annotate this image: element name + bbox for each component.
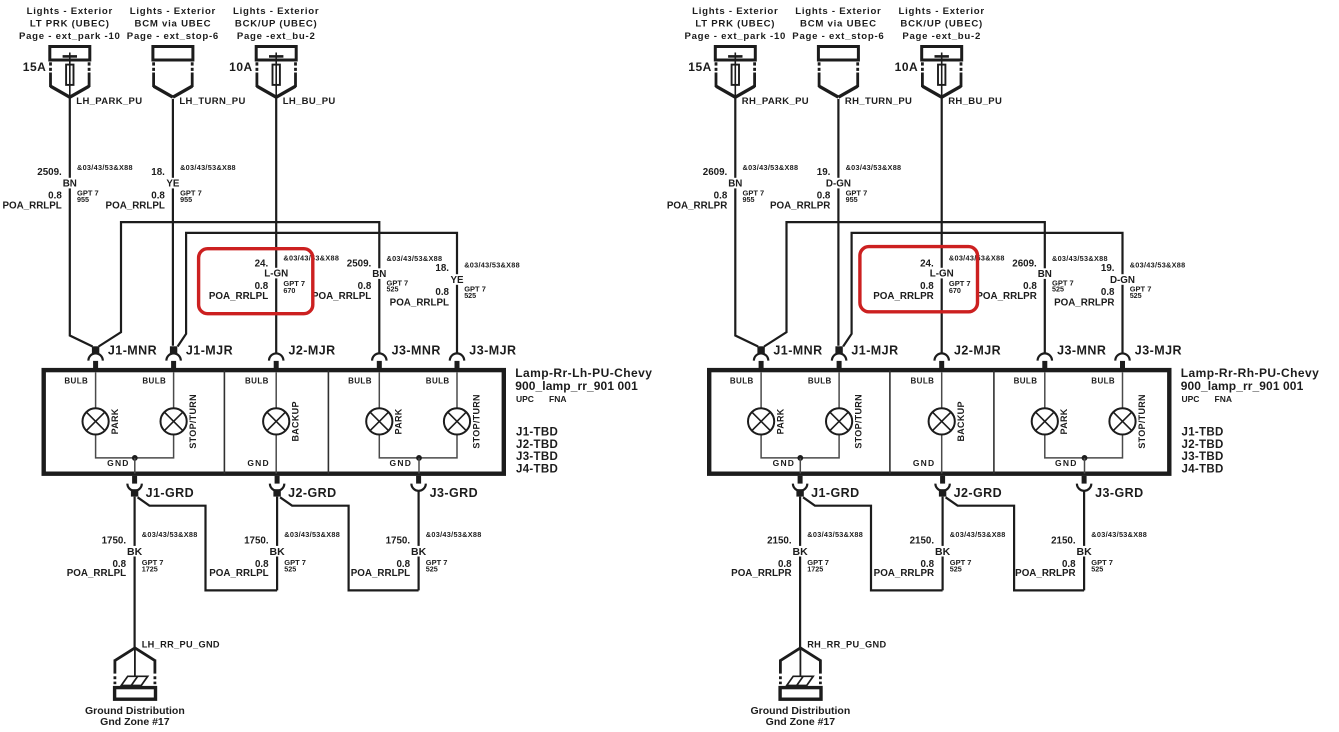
svg-text:FNA: FNA — [549, 394, 566, 404]
ground symbol LH_RR_PU_GND Gnd Zone #17 — [85, 640, 220, 729]
connector pin J2-MJR — [935, 344, 1002, 369]
ground wire label 2150. BK 1725 — [731, 530, 863, 579]
ground wire label 1750. BK 525 (J2) — [209, 530, 340, 579]
svg-text:POA_RRLPL: POA_RRLPL — [106, 201, 165, 212]
wire branch J1-MJR to J3-MJR — [178, 233, 457, 353]
bulb PARK (J1) — [748, 408, 785, 434]
svg-text:BCK/UP (UBEC): BCK/UP (UBEC) — [235, 19, 318, 30]
svg-text:Lamp-Rr-Lh-PU-Chevy: Lamp-Rr-Lh-PU-Chevy — [515, 366, 652, 380]
svg-text:POA_RRLPL: POA_RRLPL — [2, 201, 61, 212]
svg-text:POA_RRLPL: POA_RRLPL — [312, 291, 371, 302]
svg-text:BK: BK — [1077, 546, 1093, 558]
svg-text:&03/43/53&X88: &03/43/53&X88 — [1091, 530, 1147, 539]
wire label 24 L-GN 0.8 POA_RRLPR (highlighted) — [873, 253, 1004, 302]
svg-text:BK: BK — [127, 546, 143, 558]
wire label 19. D-GN 0.8 POA_RRLPR (to J3-MJR) — [1054, 260, 1185, 308]
svg-text:1725: 1725 — [142, 564, 158, 573]
bulb STOP/TURN (J1) — [161, 394, 198, 449]
wire 24 L-GN from LH_BU_PU to J2-MJR — [275, 97, 277, 353]
svg-text:19.: 19. — [1101, 263, 1115, 274]
svg-text:BK: BK — [411, 546, 427, 558]
svg-text:18.: 18. — [435, 263, 449, 274]
svg-text:J3-MNR: J3-MNR — [392, 344, 441, 358]
svg-text:955: 955 — [180, 195, 192, 204]
svg-text:POA_RRLPL: POA_RRLPL — [390, 297, 449, 308]
svg-text:POA_RRLPR: POA_RRLPR — [1015, 568, 1075, 579]
svg-text:PARK: PARK — [110, 408, 120, 434]
svg-text:L-GN: L-GN — [264, 268, 288, 279]
svg-text:Page - ext_stop-6: Page - ext_stop-6 — [792, 31, 884, 42]
wire branch J1-MJR to J3-MJR — [843, 233, 1122, 353]
svg-text:BULB: BULB — [142, 377, 166, 386]
connector pin J3-MJR — [1115, 344, 1182, 369]
wire label 2509. BN 0.8 POA_RRLPL (to J3-MNR) — [312, 254, 442, 302]
svg-text:UPC: UPC — [1182, 394, 1200, 404]
svg-text:J1-MNR: J1-MNR — [108, 344, 157, 358]
svg-text:Ground Distribution: Ground Distribution — [751, 705, 851, 717]
lamp box annotation Lamp-Rr-Rh-PU-Chevy — [1181, 366, 1320, 476]
off-page connector RH_PARK_PU — [684, 6, 809, 107]
svg-text:525: 525 — [426, 564, 438, 573]
bulb PARK (J3) — [1032, 408, 1069, 434]
svg-text:GND: GND — [913, 458, 936, 468]
svg-text:Lights - Exterior: Lights - Exterior — [130, 6, 216, 17]
ground wire J3-GRD drop — [1083, 491, 1085, 591]
svg-text:BCK/UP (UBEC): BCK/UP (UBEC) — [900, 19, 983, 30]
svg-text:BULB: BULB — [245, 377, 269, 386]
svg-text:2609.: 2609. — [1012, 258, 1037, 269]
svg-text:GND: GND — [107, 458, 130, 468]
svg-text:J3-MJR: J3-MJR — [1135, 344, 1182, 358]
lamp box annotation Lamp-Rr-Lh-PU-Chevy — [515, 366, 652, 476]
svg-text:J1-TBD: J1-TBD — [516, 427, 558, 439]
bulb PARK (J1) — [83, 408, 120, 434]
svg-text:GND: GND — [247, 458, 270, 468]
svg-text:J3-MNR: J3-MNR — [1057, 344, 1106, 358]
svg-text:&03/43/53&X88: &03/43/53&X88 — [426, 530, 482, 539]
svg-text:J2-GRD: J2-GRD — [288, 486, 337, 500]
ground wire 2150. BK J1-GRD to ground — [799, 497, 801, 648]
svg-text:955: 955 — [77, 195, 89, 204]
ground wire J3-GRD drop — [418, 491, 420, 591]
connector pin J2-GRD — [935, 476, 1002, 500]
svg-text:GND: GND — [773, 458, 796, 468]
ground wire label 2150. BK 525 (J3) — [1015, 530, 1147, 579]
svg-text:Page - ext_stop-6: Page - ext_stop-6 — [127, 31, 219, 42]
connector pin J1-MJR — [166, 344, 233, 369]
svg-text:Lights - Exterior: Lights - Exterior — [795, 6, 881, 17]
svg-text:STOP/TURN: STOP/TURN — [471, 394, 481, 449]
svg-text:BN: BN — [1038, 269, 1052, 280]
svg-text:&03/43/53&X88: &03/43/53&X88 — [77, 163, 133, 172]
svg-text:1750.: 1750. — [244, 536, 269, 547]
svg-text:J2-TBD: J2-TBD — [516, 439, 558, 451]
svg-text:LT PRK (UBEC): LT PRK (UBEC) — [30, 19, 110, 30]
svg-text:BULB: BULB — [808, 377, 832, 386]
red highlight box around 24 L-GN label — [199, 249, 313, 314]
ground wire label 1750. BK 1725 — [67, 530, 198, 579]
svg-text:FNA: FNA — [1215, 394, 1232, 404]
svg-text:BULB: BULB — [64, 377, 88, 386]
bulb STOP/TURN (J3) — [444, 394, 481, 449]
svg-text:BACKUP: BACKUP — [956, 401, 966, 441]
svg-text:STOP/TURN: STOP/TURN — [188, 394, 198, 449]
svg-text:YE: YE — [166, 178, 180, 189]
svg-text:&03/43/53&X88: &03/43/53&X88 — [180, 163, 236, 172]
svg-text:525: 525 — [464, 291, 476, 300]
svg-text:POA_RRLPR: POA_RRLPR — [731, 568, 791, 579]
svg-text:10A: 10A — [229, 60, 253, 74]
svg-text:UPC: UPC — [516, 394, 534, 404]
svg-text:J3-TBD: J3-TBD — [1182, 451, 1224, 463]
svg-text:1750.: 1750. — [386, 536, 411, 547]
svg-text:Lights - Exterior: Lights - Exterior — [692, 6, 778, 17]
bulb STOP/TURN (J3) — [1109, 394, 1146, 449]
svg-text:525: 525 — [950, 564, 962, 573]
svg-text:BK: BK — [793, 546, 809, 558]
svg-text:Lights - Exterior: Lights - Exterior — [27, 6, 113, 17]
svg-text:10A: 10A — [895, 60, 919, 74]
svg-text:LH_BU_PU: LH_BU_PU — [283, 96, 336, 107]
off-page connector LH_PARK_PU — [19, 6, 143, 107]
svg-text:&03/43/53&X88: &03/43/53&X88 — [950, 530, 1006, 539]
bulb STOP/TURN (J1) — [826, 394, 863, 449]
svg-text:Page - ext_park -10: Page - ext_park -10 — [684, 31, 786, 42]
svg-text:&03/43/53&X88: &03/43/53&X88 — [743, 163, 799, 172]
svg-text:STOP/TURN: STOP/TURN — [853, 394, 863, 449]
svg-text:BN: BN — [728, 178, 742, 189]
svg-text:POA_RRLPR: POA_RRLPR — [770, 201, 830, 212]
ground symbol RH_RR_PU_GND Gnd Zone #17 — [751, 640, 887, 729]
wire 2609. BN from RH_PARK_PU to J1-MNR — [735, 97, 758, 347]
svg-text:LH_RR_PU_GND: LH_RR_PU_GND — [142, 640, 220, 650]
svg-text:955: 955 — [743, 195, 755, 204]
connector pin J1-GRD — [793, 476, 860, 500]
svg-text:RH_BU_PU: RH_BU_PU — [948, 96, 1002, 107]
svg-text:POA_RRLPR: POA_RRLPR — [667, 201, 727, 212]
svg-text:BCM via UBEC: BCM via UBEC — [135, 19, 212, 30]
svg-text:J2-GRD: J2-GRD — [954, 486, 1003, 500]
svg-text:YE: YE — [450, 275, 464, 286]
connector pin J3-MJR — [450, 344, 517, 369]
svg-text:525: 525 — [1052, 285, 1064, 294]
svg-text:1725: 1725 — [807, 564, 823, 573]
bulb BACKUP (J2) — [263, 401, 300, 441]
connector pin J1-MJR — [832, 344, 899, 369]
svg-text:525: 525 — [284, 564, 296, 573]
svg-text:Gnd Zone #17: Gnd Zone #17 — [766, 716, 836, 728]
svg-text:955: 955 — [846, 195, 858, 204]
connector pin J1-MNR — [88, 344, 157, 369]
connector pin J3-MNR — [1038, 344, 1107, 369]
svg-text:&03/43/53&X88: &03/43/53&X88 — [846, 163, 902, 172]
svg-text:670: 670 — [949, 286, 961, 295]
wire branch J1-MNR to J3-MNR — [99, 222, 380, 353]
svg-text:900_lamp_rr_901 001: 900_lamp_rr_901 001 — [515, 379, 638, 393]
bulb PARK (J3) — [366, 408, 403, 434]
svg-text:POA_RRLPR: POA_RRLPR — [976, 291, 1036, 302]
svg-text:2609.: 2609. — [703, 167, 728, 178]
svg-text:2509.: 2509. — [347, 258, 372, 269]
svg-text:Page -ext_bu-2: Page -ext_bu-2 — [237, 31, 316, 42]
svg-text:J1-MJR: J1-MJR — [186, 344, 233, 358]
lamp internal wiring and bulbs — [64, 372, 457, 473]
ground wire J1-GRD to J2-GRD — [803, 497, 943, 590]
svg-text:&03/43/53&X88: &03/43/53&X88 — [387, 254, 443, 263]
lamp assembly Lamp-Rr-Rh-PU-Chevy — [709, 370, 1169, 474]
svg-text:POA_RRLPR: POA_RRLPR — [874, 568, 934, 579]
svg-text:LT PRK (UBEC): LT PRK (UBEC) — [695, 19, 775, 30]
off-page connector LH_TURN_PU — [127, 6, 246, 107]
svg-text:POA_RRLPR: POA_RRLPR — [873, 291, 933, 302]
svg-text:Gnd Zone #17: Gnd Zone #17 — [100, 716, 170, 728]
svg-text:&03/43/53&X88: &03/43/53&X88 — [1052, 254, 1108, 263]
svg-text:BULB: BULB — [730, 377, 754, 386]
svg-text:&03/43/53&X88: &03/43/53&X88 — [464, 260, 520, 269]
connector pin J1-MNR — [754, 344, 823, 369]
svg-text:BACKUP: BACKUP — [291, 401, 301, 441]
svg-text:J3-MJR: J3-MJR — [469, 344, 516, 358]
svg-text:900_lamp_rr_901 001: 900_lamp_rr_901 001 — [1181, 379, 1304, 393]
svg-text:J4-TBD: J4-TBD — [516, 464, 558, 476]
svg-text:1750.: 1750. — [102, 536, 127, 547]
svg-text:Lamp-Rr-Rh-PU-Chevy: Lamp-Rr-Rh-PU-Chevy — [1181, 366, 1320, 380]
ground wire label 2150. BK 525 (J2) — [874, 530, 1006, 579]
svg-text:POA_RRLPL: POA_RRLPL — [209, 568, 268, 579]
svg-text:BK: BK — [935, 546, 951, 558]
svg-text:J1-GRD: J1-GRD — [811, 486, 860, 500]
wire label 18. YE 0.8 POA_RRLPL (to J3-MJR) — [390, 260, 520, 308]
wire label 2609. BN 0.8 POA_RRLPR (to J3-MNR) — [976, 254, 1107, 302]
connector pin J1-GRD — [127, 476, 194, 500]
connector pin J3-GRD — [411, 476, 478, 500]
svg-text:PARK: PARK — [394, 408, 404, 434]
wire label 2609. BN 0.8 POA_RRLPR — [667, 163, 798, 212]
svg-text:Page - ext_park -10: Page - ext_park -10 — [19, 31, 121, 42]
wire label 19. D-GN 0.8 POA_RRLPR — [770, 163, 901, 212]
svg-text:2150.: 2150. — [910, 536, 935, 547]
svg-text:GND: GND — [1055, 458, 1078, 468]
svg-text:BK: BK — [270, 546, 286, 558]
wire branch J1-MNR to J3-MNR — [764, 222, 1045, 353]
connector pin J2-MJR — [269, 344, 336, 369]
svg-text:&03/43/53&X88: &03/43/53&X88 — [807, 530, 863, 539]
svg-text:J1-MNR: J1-MNR — [773, 344, 822, 358]
off-page connector RH_TURN_PU — [792, 6, 912, 107]
ground wire J1-GRD to J2-GRD — [138, 497, 278, 590]
wire label 24 L-GN 0.8 POA_RRLPL (highlighted) — [209, 253, 339, 302]
svg-text:J3-TBD: J3-TBD — [516, 451, 558, 463]
svg-text:STOP/TURN: STOP/TURN — [1137, 394, 1147, 449]
svg-text:J2-TBD: J2-TBD — [1182, 439, 1224, 451]
ground wire J2-GRD to J3-GRD — [280, 497, 419, 590]
connector pin J3-GRD — [1077, 476, 1144, 500]
svg-text:J1-MJR: J1-MJR — [851, 344, 898, 358]
svg-text:BN: BN — [372, 269, 386, 280]
svg-text:Lights - Exterior: Lights - Exterior — [233, 6, 319, 17]
svg-text:19.: 19. — [817, 167, 831, 178]
svg-text:670: 670 — [283, 286, 295, 295]
svg-text:2150.: 2150. — [1051, 536, 1076, 547]
svg-text:J2-MJR: J2-MJR — [954, 344, 1001, 358]
wire 19. D-GN from RH_TURN_PU to J1-MJR — [837, 99, 839, 346]
svg-text:BULB: BULB — [910, 377, 934, 386]
svg-text:Lights - Exterior: Lights - Exterior — [899, 6, 985, 17]
svg-text:POA_RRLPR: POA_RRLPR — [1054, 297, 1114, 308]
svg-text:2509.: 2509. — [37, 167, 62, 178]
wire 2509. BN from LH_PARK_PU to J1-MNR — [70, 97, 93, 347]
svg-text:15A: 15A — [23, 60, 47, 74]
ground wire J2-GRD drop — [276, 497, 278, 591]
svg-text:RH_PARK_PU: RH_PARK_PU — [742, 96, 809, 107]
svg-text:Ground Distribution: Ground Distribution — [85, 705, 185, 717]
red highlight box around 24 L-GN label — [860, 247, 978, 312]
svg-text:LH_TURN_PU: LH_TURN_PU — [179, 96, 245, 107]
svg-text:RH_RR_PU_GND: RH_RR_PU_GND — [807, 640, 886, 650]
svg-text:BCM via UBEC: BCM via UBEC — [800, 19, 877, 30]
svg-text:&03/43/53&X88: &03/43/53&X88 — [1130, 260, 1186, 269]
bulb BACKUP (J2) — [929, 401, 966, 441]
off-page connector RH_BU_PU — [895, 6, 1003, 107]
lamp internal wiring and bulbs — [730, 372, 1123, 473]
svg-text:&03/43/53&X88: &03/43/53&X88 — [142, 530, 198, 539]
svg-text:PARK: PARK — [775, 408, 785, 434]
svg-text:BULB: BULB — [348, 377, 372, 386]
svg-text:L-GN: L-GN — [930, 268, 954, 279]
lamp assembly Lamp-Rr-Lh-PU-Chevy — [44, 370, 504, 474]
ground wire 1750. BK J1-GRD to ground — [134, 497, 136, 648]
svg-text:J1-TBD: J1-TBD — [1182, 427, 1224, 439]
off-page connector LH_BU_PU — [229, 6, 335, 107]
svg-text:525: 525 — [1091, 564, 1103, 573]
svg-text:BN: BN — [63, 178, 77, 189]
ground wire label 1750. BK 525 (J3) — [351, 530, 482, 579]
svg-text:BULB: BULB — [1014, 377, 1038, 386]
svg-text:BULB: BULB — [1091, 377, 1115, 386]
svg-text:J3-GRD: J3-GRD — [430, 486, 479, 500]
svg-text:GND: GND — [390, 458, 413, 468]
svg-text:J2-MJR: J2-MJR — [289, 344, 336, 358]
svg-text:2150.: 2150. — [767, 536, 792, 547]
wire label 18. YE 0.8 POA_RRLPL — [106, 163, 236, 212]
svg-text:LH_PARK_PU: LH_PARK_PU — [76, 96, 142, 107]
svg-text:PARK: PARK — [1059, 408, 1069, 434]
svg-text:15A: 15A — [688, 60, 712, 74]
connector pin J3-MNR — [372, 344, 441, 369]
wire 24 L-GN from RH_BU_PU to J2-MJR — [941, 97, 943, 353]
svg-text:525: 525 — [1130, 291, 1142, 300]
wire 18. YE from LH_TURN_PU to J1-MJR — [172, 99, 174, 346]
svg-text:POA_RRLPL: POA_RRLPL — [351, 568, 410, 579]
svg-text:&03/43/53&X88: &03/43/53&X88 — [284, 530, 340, 539]
svg-text:POA_RRLPL: POA_RRLPL — [67, 568, 126, 579]
svg-text:J1-GRD: J1-GRD — [146, 486, 195, 500]
connector pin J2-GRD — [270, 476, 337, 500]
svg-text:J3-GRD: J3-GRD — [1095, 486, 1144, 500]
svg-text:J4-TBD: J4-TBD — [1182, 464, 1224, 476]
svg-text:BULB: BULB — [426, 377, 450, 386]
ground wire J2-GRD to J3-GRD — [946, 497, 1085, 590]
wire label 2509. BN 0.8 POA_RRLPL — [2, 163, 132, 212]
svg-text:POA_RRLPL: POA_RRLPL — [209, 291, 268, 302]
svg-text:525: 525 — [387, 285, 399, 294]
ground wire J2-GRD drop — [941, 497, 943, 591]
svg-text:Page -ext_bu-2: Page -ext_bu-2 — [902, 31, 981, 42]
svg-text:RH_TURN_PU: RH_TURN_PU — [845, 96, 912, 107]
svg-text:18.: 18. — [151, 167, 165, 178]
